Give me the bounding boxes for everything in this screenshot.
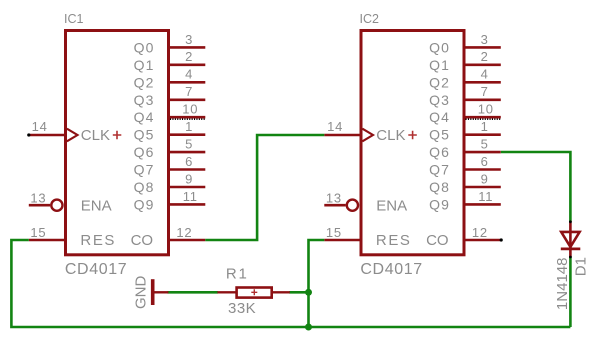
svg-text:12: 12 (176, 225, 192, 240)
svg-text:RES: RES (80, 232, 116, 249)
wire: GND to resistor R1 left lead (167, 291, 218, 294)
svg-text:RES: RES (376, 232, 412, 249)
IC2 body outline (361, 31, 464, 255)
pin 4 (Q2) of IC2 (429, 67, 501, 91)
svg-text:Q5: Q5 (134, 127, 155, 143)
svg-text:Q0: Q0 (429, 39, 450, 55)
svg-text:Q6: Q6 (134, 144, 155, 160)
unconnected pin-end dot at IC1 CLK (27, 133, 30, 136)
pin 12 (CO carry out) of IC2 (426, 225, 501, 249)
svg-text:7: 7 (481, 84, 489, 99)
svg-text:IC2: IC2 (360, 12, 380, 26)
pin 6 (Q7) of IC1 (134, 154, 206, 178)
junction dot at bottom net / middle vertical (305, 324, 312, 331)
svg-text:6: 6 (185, 154, 193, 169)
svg-text:11: 11 (183, 189, 198, 204)
svg-text:IC1: IC1 (64, 12, 84, 26)
svg-text:14: 14 (32, 119, 48, 134)
svg-text:R1: R1 (226, 265, 249, 282)
wire: resistor R1 right lead to middle junction (289, 291, 308, 294)
svg-text:10: 10 (182, 102, 198, 117)
svg-text:ENA: ENA (376, 197, 407, 214)
diode D1 1N4148 (554, 222, 589, 311)
pin 6 (Q7) of IC2 (429, 154, 501, 178)
svg-text:Q3: Q3 (429, 92, 450, 108)
pin 3 (Q0) of IC1 (134, 32, 206, 56)
svg-text:2: 2 (185, 49, 193, 64)
pin 5 (Q6) of IC1 (134, 137, 206, 161)
clock edge triangle of IC2 (362, 129, 373, 142)
wire: middle vertical net to IC2 RES (309, 240, 325, 327)
svg-text:Q6: Q6 (429, 144, 450, 160)
svg-text:4: 4 (185, 67, 193, 82)
pin 1 (Q5) of IC1 (134, 119, 206, 143)
pin-end dot at diode D1 anode (569, 220, 572, 223)
svg-text:3: 3 (481, 32, 489, 47)
pin 9 (Q8) of IC1 (134, 171, 206, 195)
svg-text:5: 5 (185, 137, 193, 152)
svg-text:15: 15 (326, 225, 342, 240)
svg-text:CD4017: CD4017 (360, 261, 422, 278)
highlighted (dotted) pin 10 line of IC2 (466, 118, 501, 120)
pin-end dot at diode D1 cathode (569, 256, 572, 259)
pin 12 (CO carry out) of IC1 (131, 225, 206, 249)
pin 7 (Q3) of IC1 (134, 84, 206, 108)
svg-text:12: 12 (472, 225, 488, 240)
svg-text:Q2: Q2 (134, 74, 155, 90)
pin 11 (Q9) of IC2 (429, 189, 501, 213)
svg-text:CO: CO (131, 232, 154, 249)
pin 2 (Q1) of IC1 (134, 49, 206, 73)
svg-text:CO: CO (426, 232, 449, 249)
svg-text:1: 1 (185, 119, 193, 134)
svg-text:ENA: ENA (81, 197, 112, 214)
svg-text:Q1: Q1 (429, 57, 450, 73)
svg-text:CD4017: CD4017 (65, 261, 127, 278)
svg-text:Q2: Q2 (429, 74, 450, 90)
svg-text:CLK: CLK (376, 127, 405, 144)
svg-text:1: 1 (481, 119, 489, 134)
svg-text:Q0: Q0 (134, 39, 155, 55)
pin 15 (RES reset) of IC2 (324, 225, 411, 249)
svg-text:9: 9 (481, 171, 489, 186)
svg-text:3: 3 (185, 32, 193, 47)
svg-text:15: 15 (30, 225, 46, 240)
svg-text:4: 4 (481, 67, 489, 82)
unconnected pin-end dot at IC2 CO (500, 238, 503, 241)
highlighted (dotted) pin 10 line of IC1 (170, 118, 205, 120)
pin 4 (Q2) of IC1 (134, 67, 206, 91)
svg-text:5: 5 (481, 137, 489, 152)
pin 13 (ENA enable, active low) of IC2 (324, 190, 407, 214)
svg-text:Q9: Q9 (429, 196, 450, 212)
ground symbol GND (132, 275, 168, 309)
svg-text:Q4: Q4 (134, 109, 155, 125)
pin 5 (Q6) of IC2 (429, 137, 501, 161)
svg-text:Q5: Q5 (429, 127, 450, 143)
svg-text:D1: D1 (573, 257, 590, 276)
part origin cross of IC1 (113, 131, 122, 139)
wire: bottom net from middle junction to diode bottom (309, 326, 571, 329)
svg-text:Q8: Q8 (429, 179, 450, 195)
pin 14 (CLK clock input) of IC1 (29, 119, 122, 144)
svg-text:11: 11 (478, 189, 493, 204)
origin cross of R1 (251, 289, 257, 295)
pin 1 (Q5) of IC2 (429, 119, 501, 143)
svg-text:GND: GND (132, 275, 149, 309)
wire: IC1 RES left loop down to bottom net (11, 240, 308, 327)
clock edge triangle of IC1 (67, 129, 78, 142)
svg-text:14: 14 (327, 119, 343, 134)
resistor R1 33K (217, 265, 289, 317)
svg-text:6: 6 (481, 154, 489, 169)
svg-text:10: 10 (478, 102, 494, 117)
svg-text:Q1: Q1 (134, 57, 155, 73)
pin 10 (Q4) of IC2 (429, 102, 501, 126)
svg-text:Q9: Q9 (134, 196, 155, 212)
pin 7 (Q3) of IC2 (429, 84, 501, 108)
svg-text:1N4148: 1N4148 (554, 258, 571, 311)
pin 15 (RES reset) of IC1 (29, 225, 116, 249)
wire: diode D1 cathode down to bottom net (569, 257, 572, 327)
wire: IC1 CO (pin 12) to IC2 CLK (pin 14) (205, 135, 324, 240)
pin 9 (Q8) of IC2 (429, 171, 501, 195)
junction dot at resistor/middle vertical net (305, 289, 312, 296)
pin 10 (Q4) of IC1 (134, 102, 206, 126)
svg-text:2: 2 (481, 49, 489, 64)
pin 11 (Q9) of IC1 (134, 189, 206, 213)
svg-text:Q7: Q7 (429, 162, 450, 178)
part origin cross of IC2 (408, 131, 417, 139)
svg-text:Q7: Q7 (134, 162, 155, 178)
svg-text:13: 13 (326, 190, 342, 205)
svg-text:13: 13 (30, 190, 46, 205)
pin 13 (ENA enable, active low) of IC1 (29, 190, 112, 214)
svg-text:9: 9 (185, 171, 193, 186)
svg-text:Q8: Q8 (134, 179, 155, 195)
svg-text:CLK: CLK (81, 127, 110, 144)
svg-text:33K: 33K (228, 300, 256, 317)
IC1 body outline (66, 31, 169, 255)
pin 3 (Q0) of IC2 (429, 32, 501, 56)
svg-text:Q3: Q3 (134, 92, 155, 108)
pin 2 (Q1) of IC2 (429, 49, 501, 73)
pin 14 (CLK clock input) of IC2 (324, 119, 417, 144)
svg-text:7: 7 (185, 84, 193, 99)
svg-text:Q4: Q4 (429, 109, 450, 125)
wire: IC2 Q6 (pin 5) to diode D1 anode (501, 152, 571, 222)
